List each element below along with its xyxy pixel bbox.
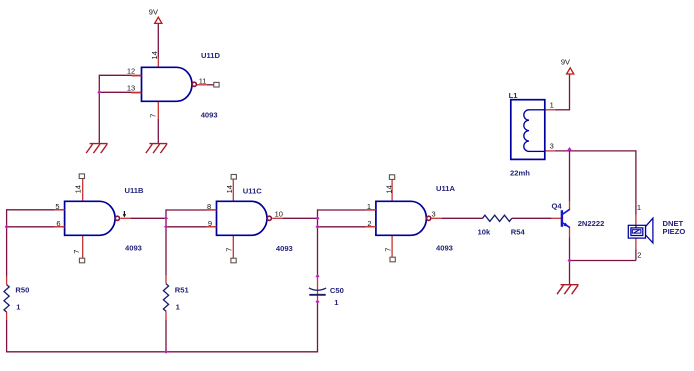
svg-text:14: 14 — [74, 185, 83, 193]
svg-text:2: 2 — [367, 219, 371, 228]
svg-text:22mh: 22mh — [510, 168, 530, 177]
svg-text:12: 12 — [127, 66, 135, 75]
svg-text:Q4: Q4 — [552, 201, 563, 210]
svg-text:2: 2 — [637, 250, 641, 259]
svg-text:10: 10 — [275, 209, 283, 218]
svg-text:13: 13 — [127, 83, 135, 92]
svg-text:U11C: U11C — [243, 187, 263, 196]
svg-text:9V: 9V — [561, 57, 570, 66]
svg-text:8: 8 — [207, 202, 211, 211]
svg-text:9: 9 — [208, 219, 212, 228]
svg-text:14: 14 — [385, 185, 394, 193]
svg-text:9V: 9V — [149, 8, 158, 17]
svg-text:C50: C50 — [330, 286, 344, 295]
svg-text:7: 7 — [383, 248, 392, 252]
svg-text:3: 3 — [432, 210, 436, 219]
svg-text:U11D: U11D — [201, 51, 221, 60]
svg-text:2N2222: 2N2222 — [578, 219, 605, 228]
svg-text:1: 1 — [637, 203, 641, 212]
svg-text:11: 11 — [199, 76, 207, 85]
svg-text:R51: R51 — [175, 286, 190, 295]
svg-text:U11A: U11A — [436, 184, 456, 193]
svg-text:4093: 4093 — [436, 243, 453, 252]
svg-text:6: 6 — [56, 219, 60, 228]
svg-text:7: 7 — [224, 248, 233, 252]
svg-text:1: 1 — [367, 202, 371, 211]
svg-text:14: 14 — [150, 51, 159, 59]
svg-text:3: 3 — [550, 141, 554, 150]
svg-text:R50: R50 — [15, 286, 29, 295]
svg-text:1: 1 — [550, 100, 554, 109]
svg-text:4093: 4093 — [276, 244, 293, 253]
svg-text:U11B: U11B — [125, 186, 145, 195]
svg-text:1: 1 — [176, 303, 181, 312]
svg-text:4093: 4093 — [201, 110, 218, 119]
svg-text:10k: 10k — [478, 227, 491, 236]
svg-text:R54: R54 — [511, 227, 526, 236]
svg-text:PIEZO: PIEZO — [663, 227, 686, 236]
svg-text:4093: 4093 — [125, 243, 142, 252]
svg-text:1: 1 — [16, 303, 21, 312]
svg-text:1: 1 — [334, 298, 339, 307]
svg-text:7: 7 — [72, 250, 81, 254]
svg-text:L1: L1 — [509, 91, 519, 100]
svg-text:14: 14 — [225, 185, 234, 193]
svg-text:7: 7 — [148, 114, 157, 118]
svg-text:5: 5 — [55, 202, 59, 211]
